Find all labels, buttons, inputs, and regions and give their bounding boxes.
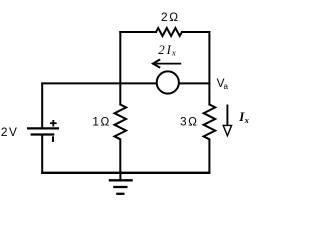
wire left vertical lower — [41, 134, 43, 173]
current source arrow shaft — [156, 63, 182, 65]
resistor 1ohm zigzag — [115, 105, 127, 140]
wire right vertical upper — [208, 31, 210, 106]
wire bottom bus — [41, 172, 210, 174]
current source arrow head — [153, 59, 160, 67]
wire top-left segment — [119, 31, 157, 33]
wire middle vertical lower — [119, 139, 121, 174]
wire top-right segment — [181, 31, 210, 33]
ground bar 3 — [116, 193, 124, 195]
dependent current source circle — [157, 71, 179, 93]
current Ix arrow shaft — [226, 105, 228, 127]
ground bar 2 — [113, 186, 127, 188]
wire middle vertical upper — [119, 31, 121, 106]
current Ix arrow open head — [223, 125, 231, 135]
wire mid horizontal left of source — [41, 82, 157, 84]
ground stem — [119, 173, 121, 180]
svg-text:2Ω: 2Ω — [161, 10, 178, 24]
resistor 2ohm zigzag — [156, 28, 182, 36]
ground bar 1 — [109, 179, 133, 181]
svg-text:1Ω: 1Ω — [92, 114, 109, 128]
resistor 3ohm zigzag — [204, 105, 216, 140]
battery minus tick — [52, 136, 54, 142]
wire right vertical lower — [208, 139, 210, 174]
battery V1 long plate — [27, 127, 59, 129]
battery plus sign — [50, 120, 57, 127]
svg-text:3Ω: 3Ω — [180, 114, 197, 128]
svg-text:2V: 2V — [1, 125, 17, 139]
wire mid horizontal right of source — [179, 82, 211, 84]
wire left vertical upper — [41, 82, 43, 128]
battery V1 short plate — [31, 133, 55, 135]
